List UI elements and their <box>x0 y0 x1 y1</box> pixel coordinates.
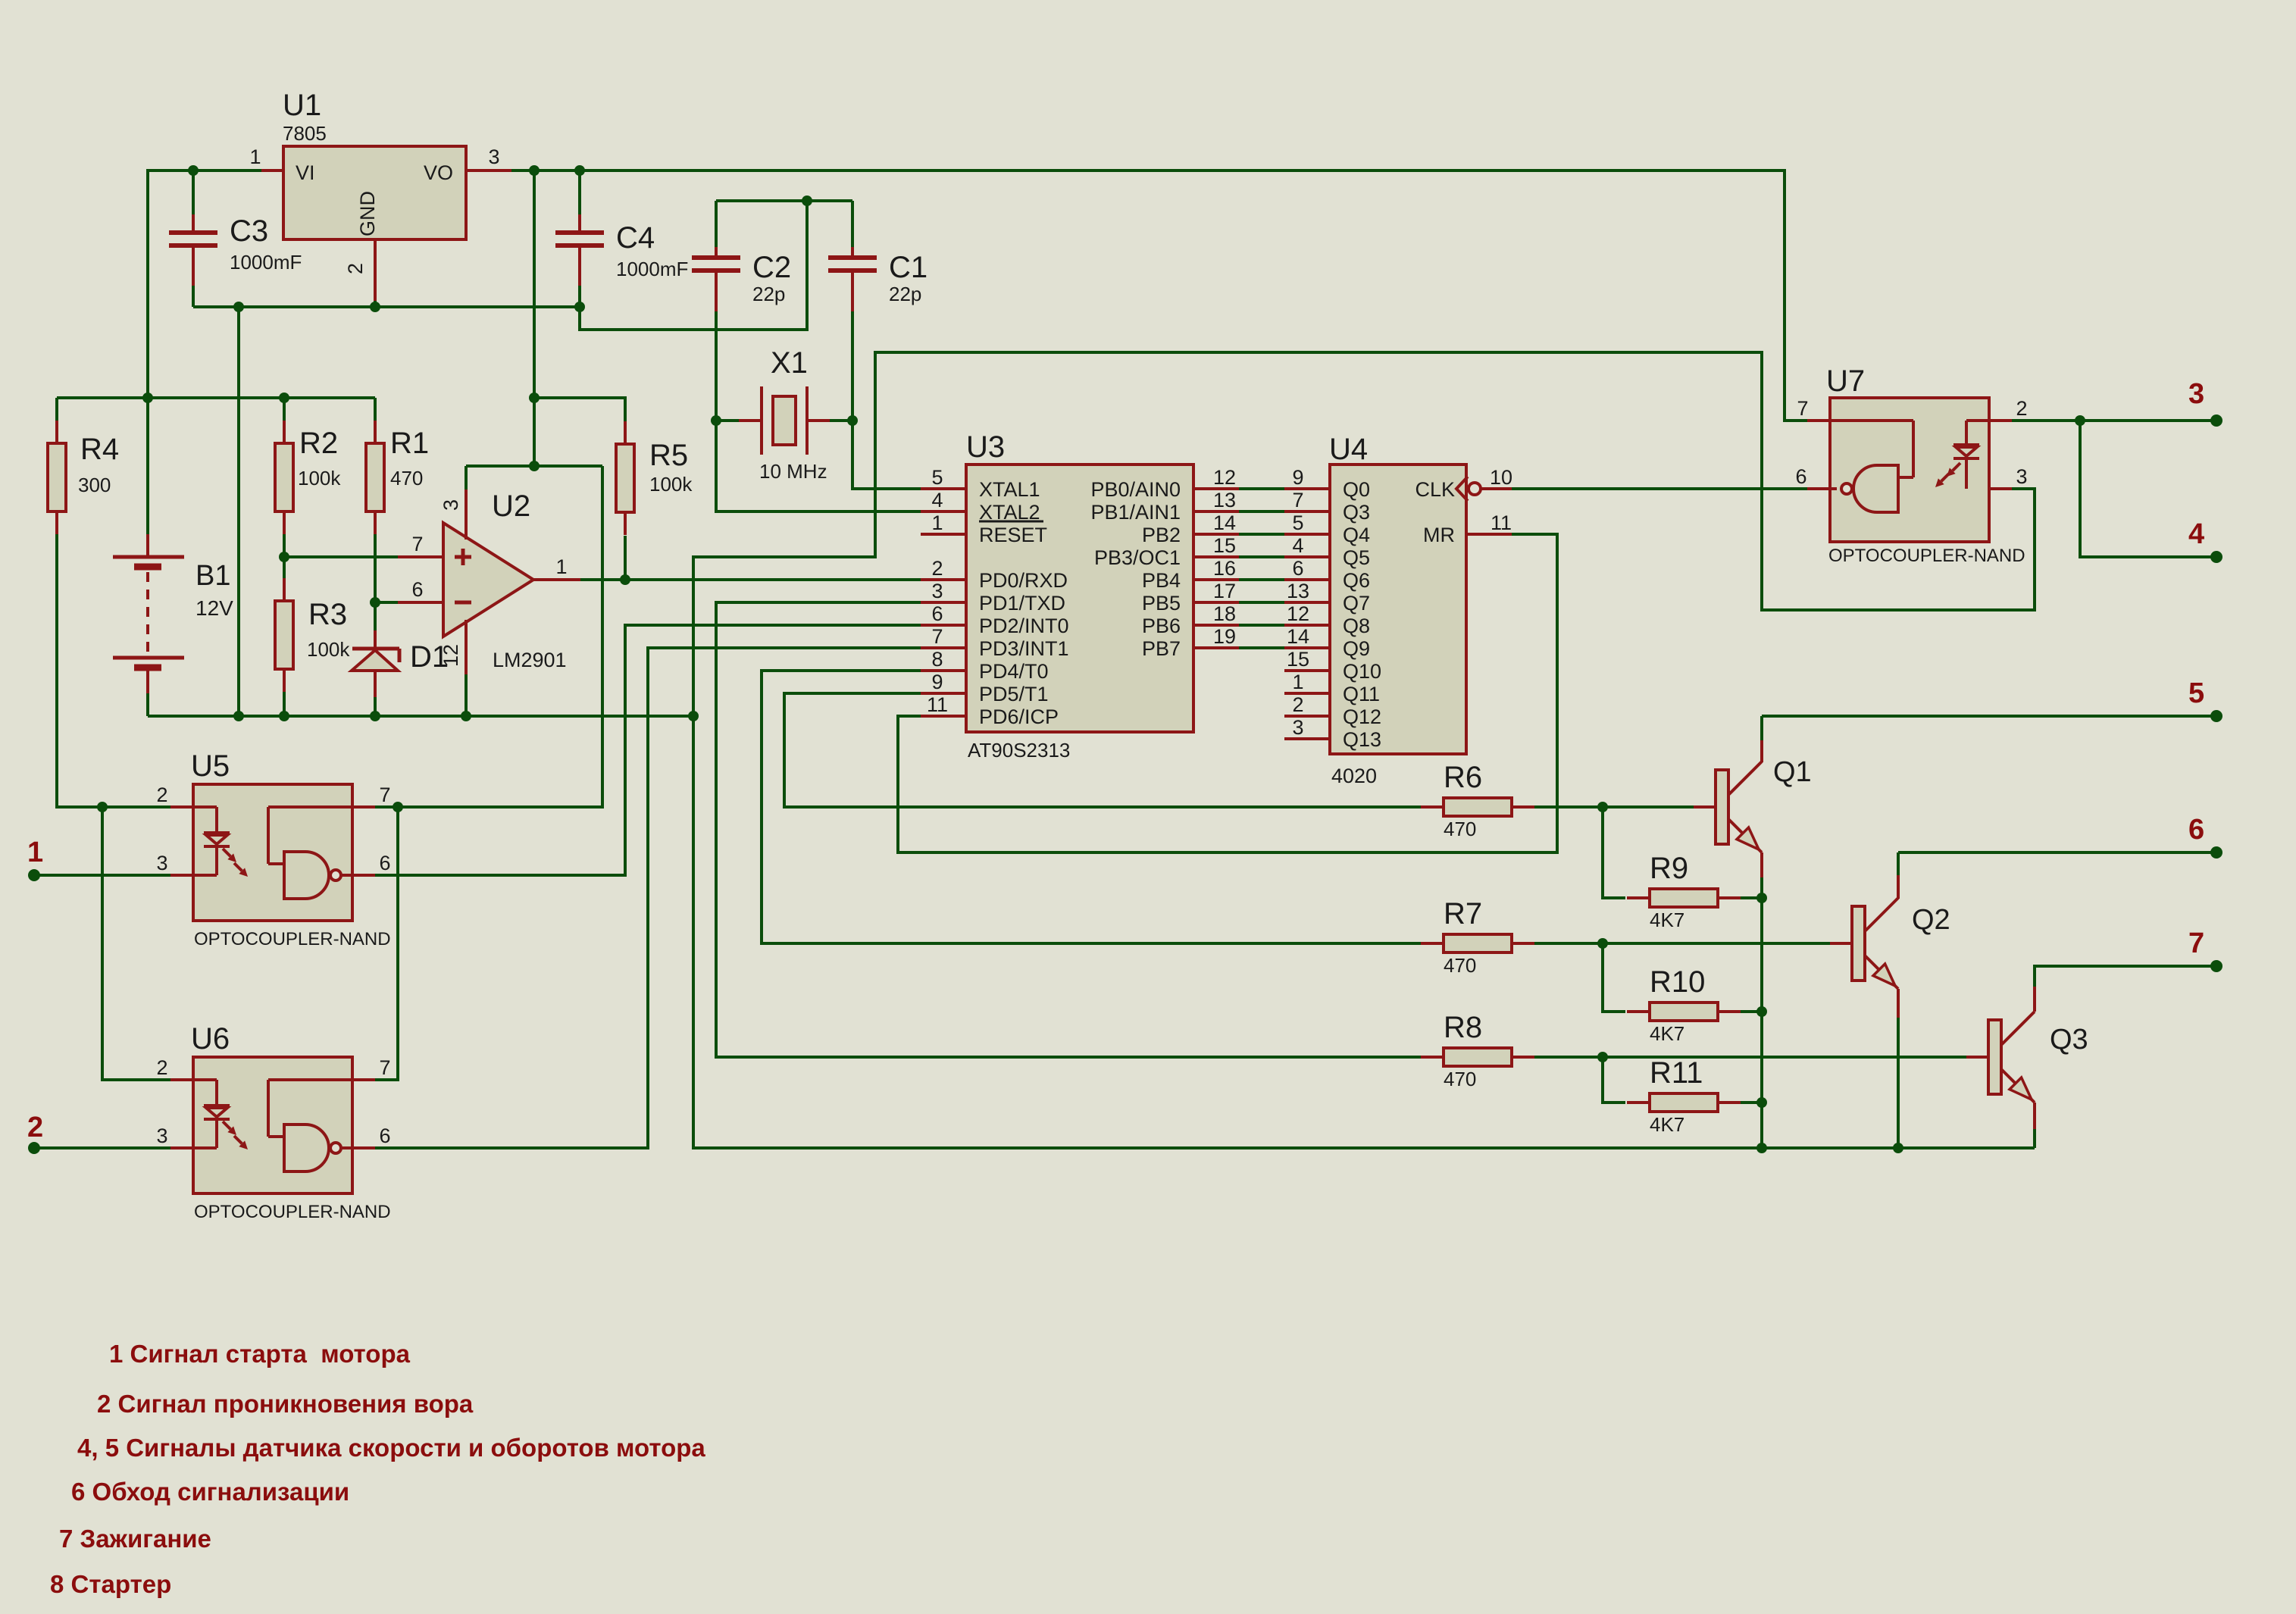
svg-text:4: 4 <box>2188 518 2204 550</box>
svg-text:Q5: Q5 <box>1343 546 1370 569</box>
svg-text:2 Сигнал проникновения вора: 2 Сигнал проникновения вора <box>97 1390 474 1418</box>
wire Q3 collector to terminal 7 <box>2035 966 2216 987</box>
svg-text:R7: R7 <box>1444 897 1482 931</box>
svg-text:6: 6 <box>1292 557 1303 580</box>
wire PD6/ICP to U4 MR <box>898 534 1557 852</box>
junction <box>370 711 380 721</box>
svg-text:300: 300 <box>78 474 111 496</box>
svg-text:5: 5 <box>2188 677 2204 709</box>
wire PD5/T1 to R6 <box>784 693 1421 807</box>
capacitor C2 <box>692 201 791 421</box>
svg-text:OPTOCOUPLER-NAND: OPTOCOUPLER-NAND <box>1828 546 2025 566</box>
regulator U1 7805 <box>249 89 511 301</box>
MCU U3 AT90S2313 <box>921 430 1239 762</box>
svg-text:U5: U5 <box>191 749 230 783</box>
svg-text:15: 15 <box>1213 534 1236 557</box>
svg-text:PB6: PB6 <box>1142 615 1181 637</box>
svg-text:4: 4 <box>931 489 943 511</box>
wire U5 pin7 to U2 supply rail <box>375 466 602 807</box>
optocoupler U7 <box>1795 364 2027 566</box>
battery B1 <box>113 534 233 716</box>
junction <box>1756 893 1767 903</box>
capacitor C1 <box>828 201 927 421</box>
junction <box>802 195 812 206</box>
wire U2 pin12 to GND <box>465 674 468 716</box>
junction <box>529 165 540 176</box>
svg-text:470: 470 <box>390 467 423 490</box>
wire C2-C1 top <box>716 199 852 202</box>
counter U4 4020 <box>1284 433 1512 787</box>
svg-text:3: 3 <box>156 852 167 874</box>
wire R1 top <box>374 398 377 421</box>
svg-text:100k: 100k <box>298 467 341 490</box>
svg-text:8: 8 <box>931 648 943 671</box>
svg-text:7: 7 <box>1292 489 1303 511</box>
svg-text:R9: R9 <box>1650 852 1688 885</box>
svg-text:5: 5 <box>1292 511 1303 534</box>
wire R1-D1 node to U2 inverting input <box>375 601 398 604</box>
svg-text:GND: GND <box>356 191 379 236</box>
svg-text:Q3: Q3 <box>1343 501 1370 524</box>
wire Q2 emitter down <box>1897 1018 1900 1148</box>
terminal 7 <box>2210 960 2222 972</box>
svg-text:PB0/AIN0: PB0/AIN0 <box>1090 478 1181 501</box>
junction <box>1756 1143 1767 1153</box>
svg-text:VI: VI <box>296 161 315 184</box>
wire +5V drop to U2 supply <box>533 170 536 466</box>
optocoupler U5 <box>156 749 390 949</box>
svg-text:3: 3 <box>488 145 499 168</box>
svg-text:U1: U1 <box>283 89 321 122</box>
svg-text:11: 11 <box>927 693 948 716</box>
svg-text:U7: U7 <box>1826 364 1865 398</box>
transistor Q2 <box>1830 898 1950 989</box>
junction <box>97 802 108 812</box>
terminal 6 <box>2210 846 2222 859</box>
resistor R11 <box>1627 1056 1741 1136</box>
svg-text:100k: 100k <box>649 473 693 496</box>
wire U1 GND pin <box>374 301 377 307</box>
svg-text:1: 1 <box>1292 671 1303 693</box>
svg-text:Q13: Q13 <box>1343 728 1381 751</box>
svg-text:2: 2 <box>931 557 943 580</box>
svg-text:4K7: 4K7 <box>1650 909 1684 931</box>
wire U3 PB6 to U4 <box>1239 624 1284 627</box>
junction <box>847 415 858 426</box>
svg-text:PD5/T1: PD5/T1 <box>979 683 1049 705</box>
svg-text:9: 9 <box>931 671 943 693</box>
svg-text:RESET: RESET <box>979 524 1047 546</box>
svg-text:1: 1 <box>931 511 943 534</box>
svg-text:7: 7 <box>931 625 943 648</box>
junction <box>461 711 471 721</box>
wire U2 pin3 rail <box>466 464 602 468</box>
junction <box>711 415 721 426</box>
Q2 emitter lead <box>1897 989 1900 1018</box>
svg-text:R3: R3 <box>308 598 347 631</box>
svg-text:8 Стартер: 8 Стартер <box>50 1570 171 1598</box>
svg-text:7 Зажигание: 7 Зажигание <box>59 1525 211 1553</box>
wire Q2 collector to terminal 6 <box>1898 851 2216 854</box>
wire U3 PB3 to U4 <box>1239 555 1284 558</box>
svg-text:PB2: PB2 <box>1142 524 1181 546</box>
junction <box>529 393 540 403</box>
svg-text:C4: C4 <box>616 221 655 255</box>
wire X1 right to XTAL1 <box>852 421 921 489</box>
junction <box>688 711 699 721</box>
wire R11 right <box>1741 1101 1762 1104</box>
wire GND run to U7 pin3 <box>693 352 2035 716</box>
svg-text:22p: 22p <box>752 283 785 305</box>
svg-text:10: 10 <box>1490 466 1512 489</box>
svg-text:VO: VO <box>424 161 453 184</box>
junction <box>2075 415 2085 426</box>
svg-text:1 Сигнал старта мотора: 1 Сигнал старта мотора <box>109 1340 411 1368</box>
capacitor C3 <box>169 170 302 307</box>
svg-text:Q8: Q8 <box>1343 615 1370 637</box>
svg-text:U2: U2 <box>492 490 530 523</box>
resistor R10 <box>1627 965 1741 1045</box>
wire +12V input to U1 VI <box>148 170 261 398</box>
svg-text:Q12: Q12 <box>1343 705 1381 728</box>
svg-text:PB4: PB4 <box>1142 569 1181 592</box>
wire branch to U6 pin2 <box>102 807 170 1080</box>
wire PD3/INT1 to U6 pin6 <box>375 648 921 1148</box>
svg-text:1: 1 <box>555 555 567 578</box>
terminal 3 <box>2210 414 2222 427</box>
svg-text:3: 3 <box>156 1124 167 1147</box>
resistor R6 <box>1421 761 1534 840</box>
wire D1 bottom <box>374 697 377 716</box>
wire D1 top <box>374 602 377 630</box>
wire to terminal 4 <box>2080 421 2216 557</box>
svg-text:6: 6 <box>379 1124 390 1147</box>
wire R4 bottom to U5 pin2 <box>57 534 170 807</box>
svg-text:6: 6 <box>1795 465 1806 488</box>
svg-text:4020: 4020 <box>1331 765 1377 787</box>
svg-text:13: 13 <box>1287 580 1309 602</box>
junction <box>1756 1006 1767 1017</box>
resistor R4 <box>48 421 119 534</box>
svg-text:12: 12 <box>1213 466 1236 489</box>
svg-text:B1: B1 <box>196 560 230 592</box>
svg-text:12: 12 <box>439 644 462 667</box>
svg-text:2: 2 <box>2016 397 2027 420</box>
resistor R2 <box>275 421 341 534</box>
svg-text:4K7: 4K7 <box>1650 1113 1684 1136</box>
svg-text:7: 7 <box>2188 927 2204 959</box>
svg-text:C1: C1 <box>889 251 927 284</box>
junction <box>279 711 289 721</box>
svg-text:X1: X1 <box>771 346 808 380</box>
wire Q1 emitter down <box>1760 877 1763 1148</box>
svg-text:PD4/T0: PD4/T0 <box>979 660 1049 683</box>
transistor Q3 <box>1966 1012 2088 1103</box>
svg-text:2: 2 <box>156 784 167 806</box>
svg-text:2: 2 <box>1292 693 1303 716</box>
wire U7 pin2 to terminal 3 <box>2012 419 2216 422</box>
svg-text:R11: R11 <box>1650 1056 1703 1090</box>
wire GND rail to transistor emitters <box>693 716 2035 1148</box>
svg-text:470: 470 <box>1444 1068 1476 1090</box>
wire terminal 2 to U6 pin3 <box>34 1146 170 1150</box>
svg-text:3: 3 <box>2188 378 2204 410</box>
svg-text:U6: U6 <box>191 1022 230 1056</box>
junction <box>233 711 244 721</box>
svg-text:7: 7 <box>411 533 423 555</box>
junction <box>279 552 289 562</box>
svg-text:3: 3 <box>2016 465 2027 488</box>
svg-text:4, 5 Сигналы датчика скорости: 4, 5 Сигналы датчика скорости и оборотов… <box>77 1434 705 1462</box>
wire R2 top <box>283 398 286 421</box>
svg-text:AT90S2313: AT90S2313 <box>968 739 1070 762</box>
svg-text:R6: R6 <box>1444 761 1482 794</box>
svg-text:U3: U3 <box>966 430 1005 464</box>
svg-text:R4: R4 <box>80 433 119 466</box>
Q1 emitter lead <box>1760 852 1763 877</box>
wire GND mid rail <box>193 305 580 308</box>
wire R4 top <box>55 398 58 421</box>
svg-text:R2: R2 <box>299 427 338 460</box>
wire base node to R10 <box>1603 943 1625 1012</box>
junction <box>370 597 380 608</box>
wire R8 to Q3 base <box>1534 1056 1966 1059</box>
junction <box>574 165 585 176</box>
wire GND bottom rail <box>148 715 693 718</box>
svg-text:2: 2 <box>156 1056 167 1079</box>
wire X1 left to XTAL2 <box>716 421 921 511</box>
svg-text:3: 3 <box>1292 716 1303 739</box>
resistor R3 <box>275 578 350 692</box>
svg-text:Q10: Q10 <box>1343 660 1381 683</box>
resistor R7 <box>1421 897 1534 977</box>
junction <box>1597 1052 1608 1062</box>
svg-text:6 Обход сигнализации: 6 Обход сигнализации <box>71 1478 349 1506</box>
wire base node to R9 <box>1603 807 1625 898</box>
junction <box>1597 802 1608 812</box>
optocoupler U6 <box>156 1022 390 1222</box>
wire U2 output to PD0/RXD <box>580 578 921 581</box>
resistor R1 <box>366 421 429 534</box>
terminal 4 <box>2210 551 2222 563</box>
svg-text:Q3: Q3 <box>2050 1024 2088 1056</box>
svg-text:9: 9 <box>1292 466 1303 489</box>
svg-text:U4: U4 <box>1329 433 1368 466</box>
svg-text:100k: 100k <box>307 638 350 661</box>
capacitor C4 <box>555 170 688 307</box>
wire U3 PB1 to U4 <box>1239 510 1284 513</box>
svg-text:470: 470 <box>1444 818 1476 840</box>
svg-text:OPTOCOUPLER-NAND: OPTOCOUPLER-NAND <box>194 1202 391 1222</box>
wire U4 CLK to U7 pin6 <box>1512 487 1807 490</box>
svg-text:4K7: 4K7 <box>1650 1022 1684 1045</box>
wire U3 PB4 to U4 <box>1239 578 1284 581</box>
svg-text:PD2/INT0: PD2/INT0 <box>979 615 1069 637</box>
svg-text:C3: C3 <box>230 214 268 248</box>
svg-text:XTAL1: XTAL1 <box>979 478 1040 501</box>
wire R3 bottom <box>283 692 286 716</box>
svg-text:4: 4 <box>1292 534 1303 557</box>
wire to B1 top <box>146 398 149 534</box>
resistor R5 <box>616 421 693 535</box>
svg-text:19: 19 <box>1213 625 1236 648</box>
wire stub <box>1419 805 1422 809</box>
svg-text:PB7: PB7 <box>1142 637 1181 660</box>
wire R6 to Q1 base <box>1534 805 1694 809</box>
svg-text:Q4: Q4 <box>1343 524 1370 546</box>
svg-text:Q2: Q2 <box>1912 904 1950 936</box>
svg-text:2: 2 <box>344 263 367 274</box>
svg-text:7: 7 <box>1797 397 1808 420</box>
svg-text:22p: 22p <box>889 283 921 305</box>
junction <box>1597 938 1608 949</box>
svg-text:R5: R5 <box>649 439 688 472</box>
svg-text:2: 2 <box>27 1112 43 1143</box>
wire R2-R3 node to U2 non-inverting input <box>284 555 398 558</box>
wire +5V rail from U1 VO to U7 pin7 <box>511 170 1807 421</box>
wire Q1 collector to terminal 5 <box>1762 715 2216 718</box>
svg-text:Q0: Q0 <box>1343 478 1370 501</box>
junction <box>279 393 289 403</box>
terminal 2 <box>28 1142 40 1154</box>
svg-text:12: 12 <box>1287 602 1309 625</box>
wire R5 top feed <box>534 398 625 421</box>
svg-text:5: 5 <box>931 466 943 489</box>
wire R9 right <box>1741 896 1762 899</box>
wire U2 pin3 up <box>465 466 468 490</box>
wire terminal 1 to U5 pin3 <box>34 874 170 877</box>
crystal X1 <box>716 346 852 483</box>
wire Q3 emitter down <box>2033 1129 2036 1148</box>
wire U3 PB5 to U4 <box>1239 601 1284 604</box>
wire R1 bottom <box>374 534 377 602</box>
svg-text:C2: C2 <box>752 251 791 284</box>
wire U3 PB0 to U4 <box>1239 487 1284 490</box>
svg-text:Q9: Q9 <box>1343 637 1370 660</box>
svg-text:R10: R10 <box>1650 965 1705 999</box>
wire +12V resistor rail <box>57 396 375 399</box>
Q1 collector lead <box>1760 740 1763 762</box>
resistor R8 <box>1421 1011 1534 1090</box>
svg-text:LM2901: LM2901 <box>493 649 567 671</box>
wire U3 PB7 to U4 <box>1239 646 1284 649</box>
svg-text:PD0/RXD: PD0/RXD <box>979 569 1068 592</box>
wire R5 bottom <box>624 536 627 580</box>
svg-text:13: 13 <box>1213 489 1236 511</box>
junction <box>233 302 244 312</box>
wire R2 bottom <box>283 534 286 557</box>
svg-text:6: 6 <box>2188 814 2204 846</box>
Q2 collector lead <box>1897 875 1900 899</box>
svg-text:MR: MR <box>1423 524 1455 546</box>
terminal 1 <box>28 869 40 881</box>
junction <box>1893 1143 1903 1153</box>
junction <box>370 302 380 312</box>
svg-text:12V: 12V <box>196 596 233 620</box>
wire PD1/TXD to R8 <box>716 602 1421 1057</box>
svg-text:7: 7 <box>379 1056 390 1079</box>
svg-text:3: 3 <box>931 580 943 602</box>
junction <box>529 461 540 471</box>
resistor R9 <box>1627 852 1741 931</box>
Q3 collector lead <box>2033 987 2036 1012</box>
svg-text:6: 6 <box>931 602 943 625</box>
svg-text:470: 470 <box>1444 954 1476 977</box>
svg-text:R1: R1 <box>390 427 429 460</box>
junction <box>574 302 585 312</box>
wire PD4/T0 to R7 <box>762 671 1421 943</box>
wire R3 top <box>283 557 286 578</box>
svg-text:11: 11 <box>1491 511 1512 534</box>
wire R10 right <box>1741 1010 1762 1013</box>
svg-text:1: 1 <box>249 145 261 168</box>
svg-text:Q11: Q11 <box>1343 683 1380 705</box>
op-amp U2 LM2901 <box>398 490 580 674</box>
svg-text:10 MHz: 10 MHz <box>759 460 827 483</box>
svg-text:PB1/AIN1: PB1/AIN1 <box>1090 501 1181 524</box>
svg-text:16: 16 <box>1213 557 1236 580</box>
wire Q2 collector riser <box>1897 852 1900 875</box>
Q3 emitter lead <box>2033 1103 2036 1129</box>
svg-text:1: 1 <box>27 837 43 868</box>
terminal 5 <box>2210 710 2222 722</box>
svg-text:PB5: PB5 <box>1142 592 1181 615</box>
junction <box>142 393 153 403</box>
wire GND vertical drop <box>237 307 240 716</box>
svg-text:PB3/OC1: PB3/OC1 <box>1094 546 1181 569</box>
wire PD2/INT0 to U5 pin6 <box>375 625 921 875</box>
transistor Q1 <box>1694 756 1812 852</box>
svg-text:14: 14 <box>1287 625 1309 648</box>
svg-text:OPTOCOUPLER-NAND: OPTOCOUPLER-NAND <box>194 929 391 949</box>
svg-text:Q6: Q6 <box>1343 569 1370 592</box>
wire U5 pin7 to U6 pin7 <box>375 807 398 1080</box>
wire R7 to Q2 base <box>1534 942 1830 945</box>
junction <box>620 574 630 585</box>
svg-text:17: 17 <box>1213 580 1236 602</box>
wire GND to crystal caps top <box>580 201 807 330</box>
svg-text:PD3/INT1: PD3/INT1 <box>979 637 1069 660</box>
junction <box>188 165 199 176</box>
wire Q1 collector riser <box>1760 716 1763 740</box>
svg-text:7805: 7805 <box>283 122 327 145</box>
zener diode D1 <box>352 630 449 697</box>
svg-text:3: 3 <box>439 499 462 511</box>
svg-text:15: 15 <box>1287 648 1309 671</box>
svg-text:6: 6 <box>379 852 390 874</box>
svg-text:6: 6 <box>411 578 423 601</box>
svg-text:Q1: Q1 <box>1773 756 1812 788</box>
wire base node to R11 <box>1603 1057 1625 1103</box>
junction <box>393 802 403 812</box>
svg-text:18: 18 <box>1213 602 1236 625</box>
svg-text:1000mF: 1000mF <box>230 251 302 274</box>
svg-text:CLK: CLK <box>1415 478 1455 501</box>
svg-text:PD6/ICP: PD6/ICP <box>979 705 1059 728</box>
svg-text:R8: R8 <box>1444 1011 1482 1044</box>
svg-text:14: 14 <box>1213 511 1236 534</box>
wire U3 PB2 to U4 <box>1239 533 1284 536</box>
svg-text:Q7: Q7 <box>1343 592 1370 615</box>
svg-text:7: 7 <box>379 784 390 806</box>
junction <box>1756 1097 1767 1108</box>
svg-text:PD1/TXD: PD1/TXD <box>979 592 1065 615</box>
svg-text:1000mF: 1000mF <box>616 258 688 280</box>
